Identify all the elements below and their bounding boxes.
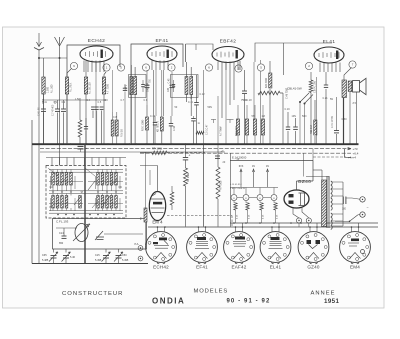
svg-text:C.44: C.44	[174, 125, 176, 131]
svg-text:MODELES: MODELES	[194, 289, 229, 295]
capacitor C10b	[95, 106, 99, 108]
svg-text:C.10: C.10	[150, 115, 156, 118]
capacitor C cathode EL41	[324, 84, 328, 86]
svg-text:4V: 4V	[252, 165, 255, 168]
circled pin marker 5	[257, 64, 264, 71]
svg-text:650: 650	[59, 242, 64, 245]
wires EF41 pins	[151, 61, 153, 71]
svg-text:C.7 47.400: C.7 47.400	[53, 104, 55, 116]
wire EF41 cathode	[163, 70, 165, 116]
wires GZ40 pins	[293, 207, 299, 218]
svg-text:C.7: C.7	[121, 99, 125, 102]
svg-text:C.19: C.19	[285, 108, 291, 111]
circled pin marker 1	[103, 64, 110, 71]
svg-text:R.50 10M0: R.50 10M0	[143, 119, 145, 131]
svg-text:C14: C14	[59, 232, 64, 235]
capacitor C26	[215, 155, 220, 157]
IF transformer T1 can	[129, 75, 147, 98]
svg-text:+4v: +4v	[348, 156, 353, 160]
resistor R cathode EL41	[309, 80, 313, 93]
wires transformer taps	[332, 181, 343, 183]
resistor R cathode EF41	[160, 117, 163, 131]
svg-text:CBL41.180: CBL41.180	[314, 80, 317, 93]
svg-text:1951: 1951	[324, 298, 340, 305]
wires slanted feeders	[48, 168, 58, 176]
resistor R3	[84, 77, 87, 94]
svg-text:5.485: 5.485	[42, 259, 49, 262]
svg-text:GO: GO	[50, 186, 54, 189]
svg-text:KB 7B.175: KB 7B.175	[157, 120, 159, 132]
resistor R2	[65, 77, 68, 94]
wire mid column a	[217, 96, 219, 149]
wire ground to chassis	[38, 50, 40, 263]
resistor R5 1M vertical	[184, 168, 188, 186]
circled pin marker 7	[349, 61, 356, 68]
transformer secondary windings	[331, 181, 332, 185]
capacitor C coupling mid	[194, 102, 199, 104]
scanned page sheet	[3, 27, 385, 308]
svg-text:EF41: EF41	[155, 38, 168, 44]
wires T1 leads	[130, 95, 132, 145]
dial lamps E1-E4	[231, 195, 237, 201]
svg-text:5H: 5H	[252, 115, 255, 118]
resistor R AF grid	[314, 120, 317, 135]
wires RM feeds	[112, 70, 114, 112]
svg-text:R.M 50: R.M 50	[121, 129, 124, 137]
left frame verticals	[31, 120, 33, 264]
circled pin marker 6	[142, 64, 149, 71]
wire EF41 screen	[155, 70, 157, 116]
capacitor C EF41 anode	[170, 84, 175, 86]
wire AVC rail	[42, 99, 108, 101]
svg-text:N.L.500: N.L.500	[51, 84, 54, 93]
svg-text:C.30: C.30	[342, 118, 348, 121]
line E14 20000	[230, 160, 313, 162]
capacitor C tone	[334, 130, 339, 132]
svg-text:EL41: EL41	[323, 39, 336, 45]
wire top grid EBF42	[185, 44, 187, 62]
coil unit enclosure dashed box	[46, 166, 126, 219]
svg-text:C.5: C.5	[98, 101, 102, 104]
svg-text:A.77.MW: A.77.MW	[220, 126, 223, 136]
capacitor C 7500	[242, 90, 247, 92]
svg-text:5.495: 5.495	[95, 259, 102, 262]
coil output transformer primary	[342, 80, 347, 98]
circled pin marker 5	[117, 64, 124, 71]
svg-text:RP. 1MΩ: RP. 1MΩ	[152, 148, 162, 151]
svg-text:C15: C15	[95, 254, 100, 257]
svg-text:5.495: 5.495	[122, 259, 129, 262]
svg-text:10N: 10N	[292, 115, 297, 118]
tube EL41 envelope	[314, 47, 344, 63]
svg-text:820.7000: 820.7000	[265, 77, 268, 88]
svg-text:+4: +4	[353, 156, 357, 160]
rail into box	[46, 157, 126, 159]
svg-text:OC: OC	[119, 186, 123, 189]
magic eye EM4	[149, 192, 165, 221]
svg-text:C.8: C.8	[113, 116, 117, 119]
wire antenna coupling	[39, 57, 67, 59]
wire EF41 g1	[152, 70, 154, 144]
capacitor C41	[41, 108, 46, 110]
svg-text:C.1: C.1	[54, 101, 58, 104]
tube EF41 envelope	[147, 46, 177, 62]
resistor R det load	[269, 73, 272, 88]
wires ECH42 pins	[83, 61, 85, 73]
svg-text:R.L 78.K: R.L 78.K	[70, 82, 73, 92]
rail mid solid	[40, 151, 225, 153]
wire antenna lead-in	[59, 56, 61, 165]
oscillator unit box C.FL.193	[53, 219, 147, 250]
resistor R screen EF41	[146, 117, 149, 130]
resistor R7 7500 vertical	[216, 167, 220, 199]
svg-text:4V: 4V	[266, 165, 269, 168]
tube ECH42 envelope	[80, 46, 113, 62]
oscillator coil former	[75, 224, 88, 242]
speaker	[353, 78, 366, 94]
fuse terminals	[296, 218, 301, 223]
wire EBF42 diode pin	[253, 62, 255, 120]
svg-text:ECH42: ECH42	[153, 265, 169, 270]
svg-text:+C: +C	[221, 149, 225, 153]
svg-text:EL41: EL41	[270, 265, 282, 270]
svg-text:GZ40: GZ40	[298, 179, 312, 185]
svg-text:ANNEE: ANNEE	[311, 291, 336, 297]
electrolytic C50 under bus	[78, 145, 84, 147]
svg-text:1.500: 1.500	[47, 86, 50, 93]
wires EM4 top	[157, 166, 159, 192]
svg-text:C.31 10.5N: C.31 10.5N	[332, 116, 334, 128]
resistor R grid EM4	[170, 192, 174, 205]
circled pin marker 2	[235, 65, 242, 72]
tube socket view EL41	[260, 232, 291, 264]
wire anode top link	[306, 176, 329, 178]
svg-text:+73: +73	[353, 147, 358, 151]
mains plug pins	[360, 197, 365, 202]
junction dots heater bus	[157, 226, 159, 228]
wires vertical mesh in box	[50, 176, 52, 189]
electrolytic C25 50uF	[183, 157, 188, 159]
coil bank lower band	[52, 196, 55, 209]
svg-text:EBF42: EBF42	[220, 39, 237, 45]
svg-text:CBL41-5W: CBL41-5W	[287, 87, 302, 91]
wire EBF42 det out	[260, 60, 262, 64]
svg-text:4.15 41.914: 4.15 41.914	[230, 184, 242, 186]
svg-text:E.14.20000: E.14.20000	[232, 156, 247, 160]
lamp dropper resistors	[234, 203, 237, 210]
wire ECH42 cathode	[95, 61, 97, 144]
svg-text:C35: C35	[42, 254, 47, 257]
wire filter line	[230, 153, 232, 226]
resistor R1 1.500	[42, 77, 45, 94]
wire mains top	[321, 170, 323, 180]
svg-text:PO: PO	[50, 206, 54, 209]
svg-text:CONSTRUCTEUR: CONSTRUCTEUR	[62, 291, 123, 297]
resistor RP series	[152, 151, 167, 155]
variable capacitor CV4	[116, 255, 122, 257]
HT rail +73	[40, 148, 351, 150]
svg-text:C.9: C.9	[144, 99, 148, 102]
dial lamp rail	[230, 187, 278, 189]
svg-text:C50: C50	[122, 254, 127, 257]
tube socket view EM4	[340, 232, 371, 264]
wires socket feeds	[157, 227, 159, 232]
wire mid vertical	[203, 144, 205, 226]
capacitor C7	[55, 108, 60, 110]
svg-text:5N: 5N	[330, 98, 333, 101]
wires feeds into coil box	[51, 158, 53, 166]
wires T2 leads	[185, 95, 187, 103]
trimmer arrows in box	[88, 181, 95, 190]
svg-text:R7 7500: R7 7500	[220, 180, 223, 190]
dashed AVC to EM4	[167, 215, 232, 217]
capacitors EBF42 cluster	[286, 126, 290, 128]
chassis bus main	[32, 143, 359, 145]
variable capacitor CV3	[103, 255, 109, 257]
antenna symbol	[55, 37, 65, 56]
wires switch to bus	[299, 102, 301, 144]
capacitor C cathode EF41	[169, 123, 173, 125]
resistor R feed EM4	[145, 152, 147, 208]
shield box ECH42 stage	[67, 45, 120, 143]
capacitor C AF coupling	[191, 118, 196, 120]
circled pin marker 6	[205, 64, 212, 71]
svg-text:6V3: 6V3	[239, 165, 244, 168]
svg-text:1M: 1M	[262, 115, 265, 118]
switch contacts row	[57, 214, 59, 216]
svg-text:C.9 1C.47: C.9 1C.47	[207, 124, 209, 135]
transformer primary winding	[322, 180, 327, 227]
tube socket view ECH42	[146, 232, 177, 264]
wire B+ top run	[255, 43, 332, 62]
svg-text:4 B15 1.5BB W: 4 B15 1.5BB W	[230, 188, 246, 190]
wires EBF42 electrode drops	[221, 70, 223, 118]
wires inside osc box	[56, 227, 77, 229]
svg-text:50N: 50N	[208, 106, 213, 109]
capacitor T2 trim	[172, 84, 175, 86]
svg-text:EAF42: EAF42	[231, 265, 246, 270]
svg-text:C.11: C.11	[188, 101, 194, 104]
tube socket view EAF42	[224, 232, 255, 264]
capacitor C8	[61, 108, 66, 110]
wires EBF42 pins	[217, 62, 219, 71]
svg-text:50K: 50K	[236, 129, 239, 134]
svg-text:+: +	[189, 154, 191, 158]
IF transformer T2 can	[171, 75, 199, 98]
capacitor C T1 side	[123, 87, 127, 89]
coil T1 primary	[130, 77, 133, 95]
svg-text:ECH42: ECH42	[88, 38, 105, 44]
svg-text:C.12: C.12	[200, 93, 206, 96]
mains switch	[335, 220, 350, 222]
svg-text:MF1: MF1	[124, 84, 128, 90]
wire ECH42 anode slant	[104, 72, 106, 77]
trimmer pair right of former	[95, 231, 103, 240]
svg-text:90 - 91 - 92: 90 - 91 - 92	[227, 299, 271, 305]
wires heater drops	[240, 170, 242, 187]
svg-text:~: ~	[367, 206, 369, 210]
capacitor mains filter	[342, 197, 344, 205]
wire EBF42 grid return	[203, 70, 205, 144]
coil L osc padder	[78, 120, 82, 137]
wires speaker to chassis	[349, 92, 351, 144]
coil T2 primary	[185, 77, 188, 95]
coil T2 secondary	[190, 77, 193, 95]
resistor small series	[196, 131, 204, 134]
svg-text:C.18: C.18	[247, 99, 253, 102]
tube socket view EF41	[187, 232, 218, 264]
baseline chassis bottom left	[32, 263, 148, 265]
wires lamps series	[237, 197, 243, 199]
wire B+ drop to pot	[283, 43, 285, 75]
svg-text:P.A.: P.A.	[135, 242, 140, 246]
coil output transformer secondary	[348, 81, 352, 92]
svg-text:1M: 1M	[253, 131, 256, 134]
resistors EBF42 cluster	[236, 119, 239, 135]
svg-text:C.41 .50: C.41 .50	[39, 107, 41, 116]
svg-text:100: 100	[342, 208, 347, 211]
wires horizontal mesh in box	[49, 181, 83, 183]
tube socket view GZ40	[298, 232, 329, 264]
rail +4v bracket	[345, 149, 352, 158]
svg-text:EM4: EM4	[350, 265, 360, 270]
svg-text:C.21: C.21	[323, 97, 329, 100]
svg-text:A.L 50.100: A.L 50.100	[89, 82, 92, 94]
slug arrow through former	[73, 224, 90, 241]
svg-text:C.2: C.2	[62, 101, 66, 104]
variable capacitor CV2	[63, 255, 69, 257]
svg-text:C.13: C.13	[190, 93, 193, 99]
circled pin marker 2	[168, 64, 175, 71]
transformer core	[326, 176, 328, 228]
variable capacitor CV1	[51, 255, 57, 257]
capacitor C10	[91, 106, 95, 108]
svg-text:R5 1MΩ: R5 1MΩ	[187, 173, 190, 182]
svg-text:EF41: EF41	[196, 265, 208, 270]
wires inside coil box	[49, 169, 123, 171]
rectifier GZ40	[284, 190, 309, 208]
wires EL41 pins	[319, 63, 321, 73]
svg-text:ONDIA: ONDIA	[152, 297, 185, 306]
shield box EBF42 stage	[186, 44, 214, 50]
padder cap C14	[62, 235, 67, 237]
resistor R4	[102, 77, 105, 94]
wire pot wiper down	[282, 93, 284, 144]
gang shaft line	[84, 144, 86, 263]
shield box EF41 stage	[131, 44, 183, 143]
svg-text:5.46: 5.46	[70, 256, 75, 259]
terminals P.U.	[138, 246, 143, 251]
heater bus upper	[230, 222, 378, 224]
switch on potentiometer	[300, 93, 309, 102]
svg-text:GZ40: GZ40	[307, 265, 320, 270]
wires mains cords	[346, 198, 360, 199]
wire ECH42 grid slant	[67, 69, 72, 78]
resistor RM pair	[111, 120, 114, 136]
svg-text:50N: 50N	[302, 115, 307, 118]
capacitor C EF41 grid	[145, 84, 150, 86]
capacitor C screen EF41	[153, 122, 157, 124]
coil T1 secondary	[134, 77, 137, 95]
earth ground symbol	[34, 33, 44, 50]
circled pin marker 6	[70, 62, 77, 69]
circled pin marker 2	[305, 62, 312, 69]
capacitor C4b	[100, 106, 104, 108]
tube EBF42 envelope	[212, 47, 244, 63]
svg-text:EM 4: EM 4	[152, 220, 163, 225]
heater bus lower	[148, 226, 378, 228]
svg-text:C41: C41	[43, 101, 48, 104]
heater rail +6v	[140, 152, 351, 154]
svg-text:R11 1M: R11 1M	[310, 125, 313, 134]
svg-text:C.4: C.4	[87, 99, 91, 102]
capacitor T1 trim	[141, 84, 145, 86]
wire EBF42 anode up	[239, 61, 241, 70]
wire EL41 g2 drop	[316, 77, 318, 144]
svg-text:C.FL.193: C.FL.193	[56, 220, 69, 224]
svg-text:1.500: 1.500	[75, 98, 82, 101]
coil bank upper band	[52, 173, 55, 186]
junction dots on bus	[38, 143, 40, 145]
svg-text:4.7 .7000: 4.7 .7000	[107, 83, 110, 94]
bracket caps mid	[211, 119, 216, 121]
capacitor C9	[84, 126, 88, 128]
svg-text:C.45: C.45	[169, 78, 171, 84]
wire mid column b	[225, 100, 227, 144]
contact dots mid box	[52, 191, 54, 193]
wire heater feed verticals	[303, 153, 305, 176]
